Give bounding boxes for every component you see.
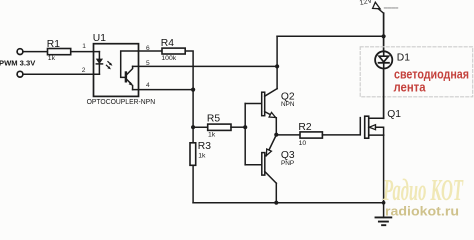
svg-text:R2: R2 <box>298 122 311 133</box>
wire through D1 <box>383 51 385 68</box>
svg-text:radiokot.ru: radiokot.ru <box>385 205 459 219</box>
svg-text:PNP: PNP <box>281 160 294 167</box>
dashed box LED strip <box>360 47 473 97</box>
wire U1 internal LED branch <box>98 52 100 75</box>
svg-text:2: 2 <box>82 67 86 74</box>
wire Q2 emitter down to output node <box>275 118 277 135</box>
transistor Q1 body arrow <box>369 125 375 130</box>
svg-text:R4: R4 <box>161 38 174 49</box>
svg-text:5: 5 <box>146 60 150 67</box>
svg-text:1k: 1k <box>208 131 216 138</box>
svg-text:D1: D1 <box>397 53 410 64</box>
svg-text:4: 4 <box>146 82 150 89</box>
svg-text:R1: R1 <box>47 39 60 50</box>
resistor R1 <box>48 49 71 55</box>
wire U1 pin6 internal to base <box>121 51 139 77</box>
node junction source rail <box>382 201 386 205</box>
svg-text:OPTOCOUPLER-NPN: OPTOCOUPLER-NPN <box>87 97 156 106</box>
svg-text:100k: 100k <box>161 55 176 62</box>
node junction push-pull output <box>274 133 278 137</box>
wire ground rail <box>193 202 383 204</box>
wire Q3 base <box>245 164 262 166</box>
wire Q2 base <box>245 103 262 105</box>
transistor Q2 base bar <box>262 92 265 116</box>
wire R5 right to bases <box>231 126 245 128</box>
wire U1 pin5 to Q2 collector riser <box>133 65 278 67</box>
ground <box>376 217 392 225</box>
wire output node to R2 <box>276 134 300 136</box>
node PWM input terminal 1 <box>17 49 23 55</box>
wire Q1 source down to ground rail and ground <box>383 135 385 217</box>
wire U1 pin4 to R4 net <box>133 89 194 91</box>
svg-text:R3: R3 <box>198 141 211 152</box>
wire R5 left <box>193 126 208 128</box>
op-amp U1 optocoupler box <box>94 44 139 97</box>
transistor Q1 drain stub <box>369 117 384 119</box>
transistor Q2 emitter diagonal with arrow <box>265 112 276 118</box>
wire R2 to Q1 gate <box>322 118 360 135</box>
diode D1 triangle <box>379 56 389 62</box>
wire D1 to Q1 drain <box>383 69 385 119</box>
transistor Q3 base bar <box>262 153 265 176</box>
transistor Q3 emitter diagonal with inward arrow <box>266 135 276 156</box>
svg-text:12V: 12V <box>359 0 374 7</box>
transistor Q1 source stub <box>369 134 384 136</box>
wire Q3 collector to ground rail <box>275 183 277 203</box>
transistor phototransistor base bar inside U1 <box>125 71 127 82</box>
node junction R5 to base rail <box>243 125 247 129</box>
light arrow 2 inside U1 <box>106 65 109 68</box>
node junction Q3 ground rail <box>274 201 278 205</box>
svg-text:U1: U1 <box>93 33 106 44</box>
svg-text:1: 1 <box>82 43 86 50</box>
LED D1 circle <box>375 51 392 68</box>
resistor R2 <box>300 132 322 138</box>
resistor R4 <box>162 48 185 54</box>
svg-text:10: 10 <box>299 140 307 147</box>
wire terminal2 to U1 pin2 <box>23 73 99 75</box>
svg-text:6: 6 <box>146 45 150 52</box>
node PWM input terminal 2 <box>17 71 23 77</box>
transistor Q2 collector diagonal <box>265 89 277 97</box>
svg-text:PWM 3.3V: PWM 3.3V <box>0 59 36 68</box>
wire R3 top lead <box>192 127 194 143</box>
svg-text:R5: R5 <box>207 113 220 124</box>
svg-text:Q1: Q1 <box>387 109 401 120</box>
transistor Q3 collector diagonal <box>265 172 277 184</box>
resistor R3 <box>190 143 196 166</box>
diode LED inside U1 <box>97 59 103 63</box>
light arrow 1 inside U1 <box>108 62 111 65</box>
node junction 12V rail <box>382 34 386 38</box>
node junction pin5 riser <box>275 64 279 68</box>
phototransistor collector inside U1 <box>127 66 133 74</box>
wire terminal1 to R1 <box>23 51 48 53</box>
wire 12V drop to D1 <box>383 13 385 51</box>
svg-text:1k: 1k <box>48 55 56 62</box>
wire Q2 collector riser to top rail <box>276 36 278 88</box>
svg-text:NPN: NPN <box>281 101 295 108</box>
wire U1 pin6 to R4 <box>139 50 163 52</box>
svg-text:лента: лента <box>394 80 427 95</box>
phototransistor emitter inside U1 <box>127 80 133 90</box>
resistor R5 <box>208 124 231 130</box>
wire base rail vertical <box>244 104 246 165</box>
wire R4 right and vertical down to R5 R3 node <box>185 51 193 127</box>
node junction R5 R3 <box>191 125 195 129</box>
wire top rail 12V <box>277 35 384 37</box>
svg-text:Радио КОТ: Радио КОТ <box>382 172 463 207</box>
wire R3 bottom to ground rail <box>192 165 194 202</box>
node junction pin4 net <box>191 88 195 92</box>
power supply 12V arrow <box>378 9 384 14</box>
svg-text:1k: 1k <box>198 153 206 160</box>
wire R1 to U1 pin1 <box>71 51 100 53</box>
diode D1 cathode bar <box>379 62 389 64</box>
transistor Q1 channel bar <box>365 116 369 138</box>
gray dashes near 12V <box>385 7 398 9</box>
cathode bar of U1 LED <box>96 63 102 65</box>
